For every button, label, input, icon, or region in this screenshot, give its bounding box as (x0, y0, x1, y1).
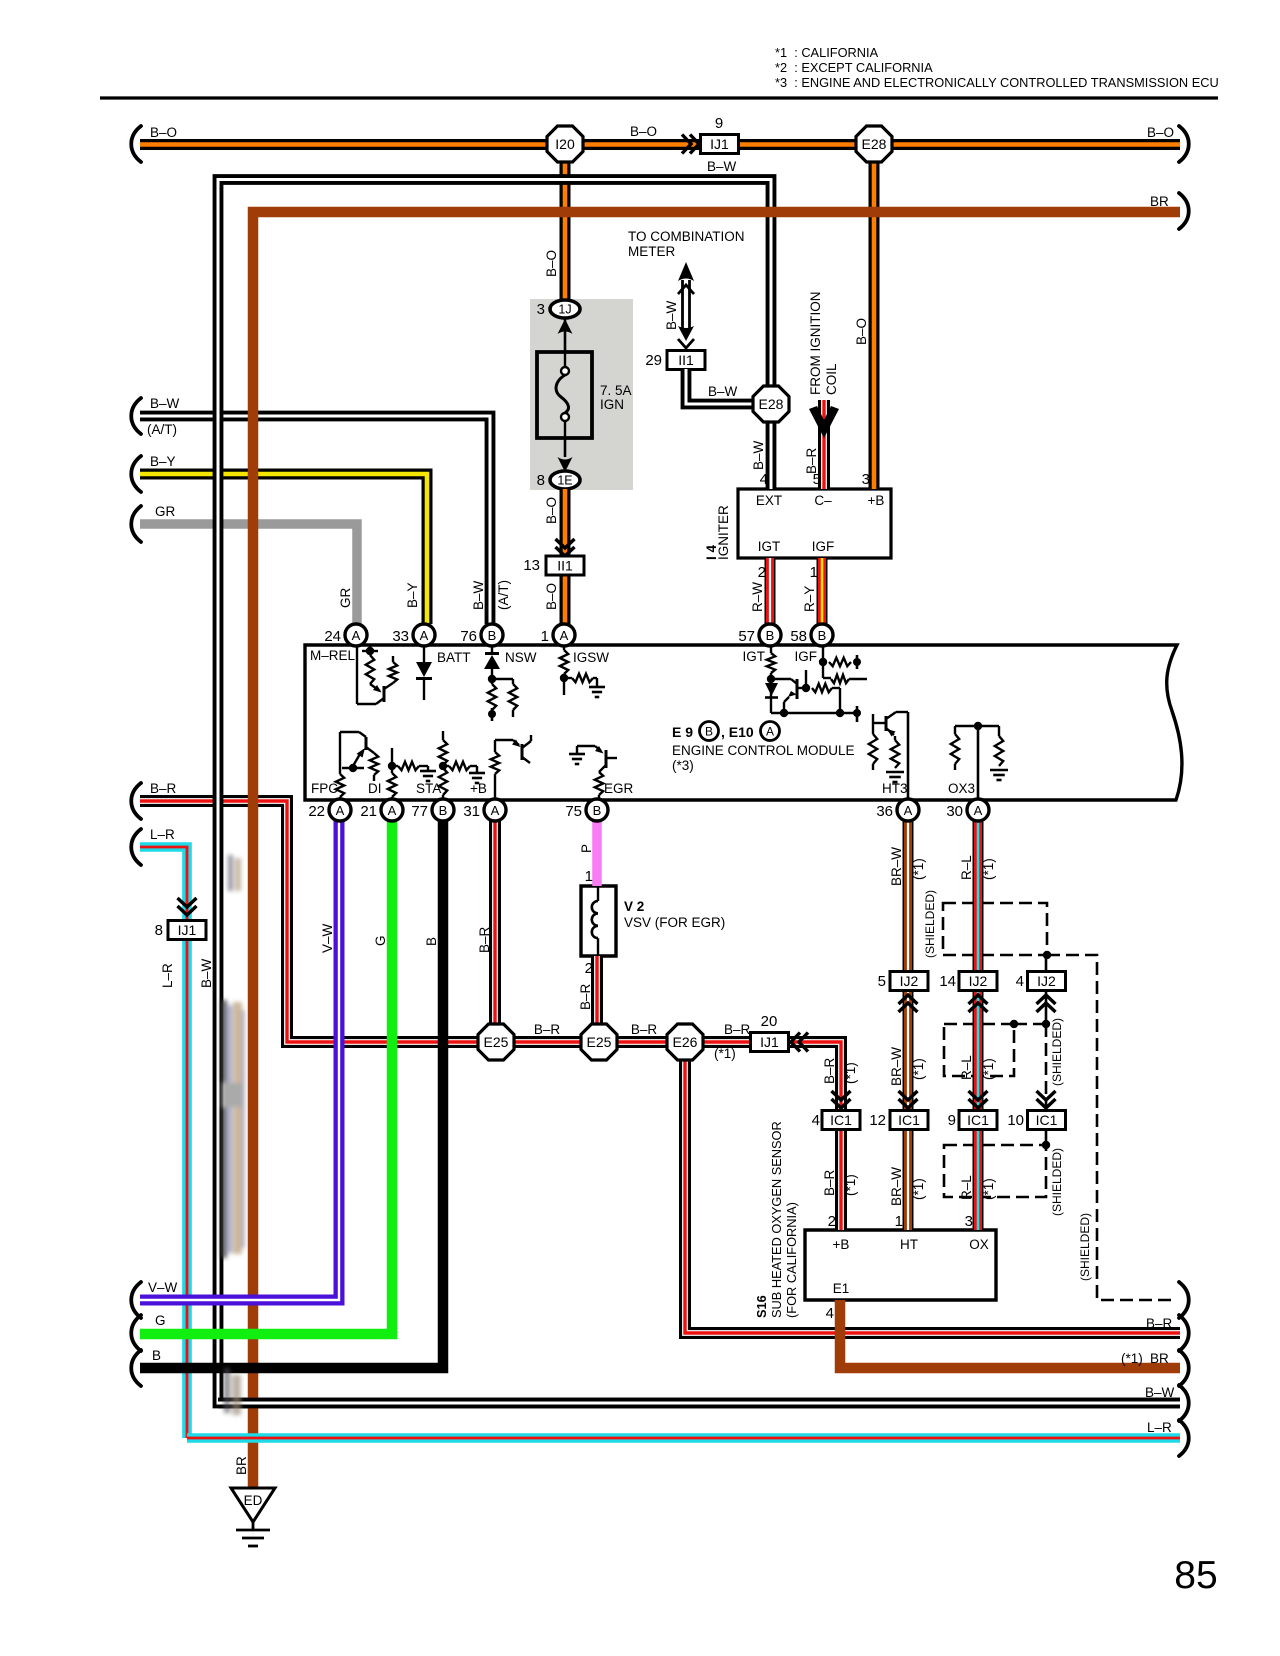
svg-text:B: B (152, 1348, 161, 1363)
svg-text:1: 1 (895, 1213, 903, 1230)
shield dashed col segment (1045, 1024, 1048, 1108)
chevrons up below IJ2-4 (1037, 995, 1056, 1012)
svg-text:IJ1: IJ1 (760, 1034, 779, 1050)
svg-text:(*1): (*1) (911, 1178, 926, 1200)
fuse panel (gray) (530, 299, 633, 490)
svg-text:HT: HT (900, 1237, 918, 1252)
transistor FPC circuit (336, 732, 378, 800)
wire R-W IGT (765, 558, 776, 624)
shield dot middle right (1042, 1020, 1050, 1028)
svg-text:*1 : CALIFORNIA: *1 : CALIFORNIA (775, 45, 879, 60)
svg-text:TO COMBINATION: TO COMBINATION (628, 229, 745, 244)
svg-text:L–R: L–R (150, 827, 175, 842)
svg-text:(FOR CALIFORNIA): (FOR CALIFORNIA) (784, 1202, 799, 1318)
svg-text:E26: E26 (673, 1034, 698, 1050)
svg-text:(*1): (*1) (714, 1046, 736, 1061)
scan smudge lower (224, 1368, 241, 1415)
wire BR main run (253, 212, 1180, 1490)
svg-text:(*1): (*1) (981, 1058, 996, 1080)
svg-text:BR–W: BR–W (889, 1167, 904, 1206)
ECM box outline (engine control module) (305, 645, 1182, 800)
wire L-R bottom segment (187, 1433, 1180, 1443)
svg-text:IC1: IC1 (830, 1112, 852, 1128)
svg-text:R–Y: R–Y (802, 586, 817, 612)
brace B-W right (1179, 1385, 1189, 1421)
svg-text:30: 30 (946, 803, 963, 820)
svg-text:8: 8 (537, 472, 545, 489)
svg-text:R–L: R–L (959, 855, 974, 880)
connector E26 (667, 1024, 703, 1060)
wire B-W (A/T) entry (140, 416, 490, 624)
svg-text:36: 36 (876, 803, 893, 820)
shield link middle (1014, 1023, 1046, 1026)
scan smudge upper (228, 855, 241, 891)
pin 57 (B) IGT (738, 624, 781, 646)
shield dot lower (1042, 1141, 1050, 1149)
svg-text:B–W: B–W (1145, 1385, 1175, 1400)
shield box upper (OX3) (943, 903, 1047, 955)
svg-text:G: G (155, 1313, 166, 1328)
wire R-L pin30 to IJ2 (973, 821, 984, 972)
svg-text:3: 3 (965, 1213, 973, 1230)
svg-text:B–O: B–O (544, 250, 559, 277)
svg-text:SUB HEATED OXYGEN SENSOR: SUB HEATED OXYGEN SENSOR (769, 1121, 784, 1318)
svg-text:B–W: B–W (150, 396, 180, 411)
shield dot middle left (1010, 1020, 1018, 1028)
svg-text:DI: DI (368, 781, 382, 796)
svg-text:5: 5 (813, 471, 821, 488)
svg-text:E1: E1 (833, 1281, 850, 1296)
ground ED triangle (231, 1488, 275, 1522)
svg-text:IGSW: IGSW (573, 650, 609, 665)
svg-text:(SHIELDED): (SHIELDED) (1050, 1018, 1064, 1086)
svg-text:S16: S16 (754, 1295, 769, 1318)
svg-text:IGT: IGT (743, 649, 766, 664)
svg-text:B–R: B–R (477, 926, 492, 953)
svg-text:2: 2 (585, 960, 593, 977)
svg-text:4: 4 (812, 1112, 820, 1129)
svg-text:1E: 1E (557, 474, 572, 488)
wire V-W entry (140, 821, 339, 1300)
svg-text:9: 9 (948, 1112, 956, 1129)
pin 30 (A) OX3 (946, 799, 989, 821)
diode BATT circuit (416, 645, 432, 700)
chevrons down above II1-13 (556, 539, 575, 556)
svg-text:B: B (766, 628, 775, 643)
wire B-R main path (140, 801, 841, 1230)
svg-text:IJ1: IJ1 (178, 922, 197, 938)
svg-text:3: 3 (537, 301, 545, 318)
fuse element (556, 352, 569, 438)
connector E28 (top) (856, 126, 892, 162)
svg-text:BR: BR (1150, 1351, 1169, 1366)
svg-text:B–R: B–R (822, 1057, 837, 1084)
svg-text:B–W: B–W (471, 580, 486, 610)
svg-text:(A/T): (A/T) (496, 580, 511, 610)
svg-text:58: 58 (790, 628, 807, 645)
svg-text:A: A (388, 803, 397, 818)
resistor IGSW circuit (560, 645, 605, 697)
pin 21 (A) DI (360, 799, 403, 821)
svg-text:R–L: R–L (959, 1175, 974, 1200)
svg-text:(SHIELDED): (SHIELDED) (923, 890, 937, 958)
svg-text:E25: E25 (484, 1034, 509, 1050)
svg-text:B–O: B–O (544, 583, 559, 610)
svg-text:2: 2 (758, 564, 766, 581)
svg-text:BR: BR (1150, 194, 1169, 209)
svg-text:A: A (420, 628, 429, 643)
svg-text:B–Y: B–Y (405, 582, 420, 608)
resistor DI circuit (388, 748, 436, 800)
svg-text:B–W: B–W (707, 159, 737, 174)
wire B entry (140, 821, 443, 1368)
svg-text:A: A (766, 725, 774, 739)
brace B-O left (131, 126, 141, 162)
chevrons down above IC1-10 (1037, 1091, 1056, 1108)
svg-text:A: A (560, 628, 569, 643)
brace B-R left (131, 783, 141, 819)
svg-text:B–R: B–R (534, 1022, 561, 1037)
junction IC1 (12) (890, 1111, 928, 1130)
connector 1E (550, 471, 580, 489)
junction IJ2 (4) (1028, 972, 1066, 991)
svg-text:E 9: E 9 (672, 724, 693, 740)
svg-text:A: A (491, 803, 500, 818)
junction IJ2 (5) (890, 972, 928, 991)
svg-text:STA: STA (416, 781, 441, 796)
transistor +B circuit (491, 735, 531, 800)
pin 75 (B) EGR (565, 799, 608, 821)
pin 1 (A) IGSW (541, 624, 575, 646)
svg-text:10: 10 (1007, 1112, 1024, 1129)
ground ED stem and bars (236, 1522, 270, 1546)
wire B-W II1 to E28 (686, 369, 753, 404)
wire L-R entry and vertical (140, 847, 187, 1438)
junction IC1 (9) (959, 1111, 997, 1130)
fuse wire lower (564, 438, 567, 457)
svg-text:B–O: B–O (544, 497, 559, 524)
wire B-W bottom segment (218, 1398, 1180, 1409)
junction II1 (13) (546, 556, 584, 575)
connector E25 (right) (581, 1024, 617, 1060)
svg-text:II1: II1 (557, 558, 573, 574)
shield box middle (R-L) (944, 1024, 1014, 1076)
chevrons right to IJ1-9 (682, 135, 699, 154)
wire R-L IC1 to sensor OX (973, 1128, 984, 1230)
junction IJ2 (14) (959, 972, 997, 991)
svg-text:B–R: B–R (822, 1169, 837, 1196)
wire GR entry (140, 524, 357, 624)
wire B-O fuse column upper (560, 161, 571, 300)
connector E28 (lower) (753, 386, 789, 422)
svg-text:5: 5 (878, 973, 886, 990)
svg-text:IGT: IGT (758, 539, 781, 554)
brace B-R right bottom (1179, 1315, 1189, 1351)
svg-text:(SHIELDED): (SHIELDED) (1078, 1213, 1092, 1281)
svg-text:V 2: V 2 (624, 899, 644, 914)
svg-text:(*1): (*1) (911, 858, 926, 880)
svg-text:B–R: B–R (1146, 1316, 1173, 1331)
igniter box I4 (738, 489, 891, 558)
fuse 7.5A IGN box (537, 352, 592, 438)
pin 31 (A) +B (463, 799, 506, 821)
wire B-R E26 branch to right exit (685, 1060, 1180, 1333)
transistor IGT circuit (765, 645, 861, 722)
diode NSW circuit (484, 645, 517, 721)
svg-text:B: B (818, 628, 827, 643)
wire B-W E28 to igniter EXT (766, 404, 777, 489)
svg-text:B–O: B–O (150, 125, 177, 140)
pin 33 (A) BATT (392, 624, 435, 646)
chevrons down above IC1-12 (899, 1091, 918, 1108)
brace B-W A/T left (131, 398, 141, 434)
svg-text:(*1): (*1) (1121, 1351, 1143, 1366)
svg-text:ENGINE CONTROL MODULE: ENGINE CONTROL MODULE (672, 743, 855, 758)
svg-text:(*1): (*1) (911, 1058, 926, 1080)
svg-text:ED: ED (244, 1493, 263, 1508)
svg-text:IC1: IC1 (967, 1112, 989, 1128)
svg-text:V–W: V–W (320, 923, 335, 953)
svg-text:85: 85 (1174, 1554, 1217, 1597)
svg-text:IJ2: IJ2 (969, 973, 988, 989)
svg-text:BR–W: BR–W (889, 1047, 904, 1086)
svg-text:22: 22 (308, 803, 325, 820)
wire R-Y IGF (817, 558, 828, 624)
svg-text:COIL: COIL (824, 363, 839, 395)
svg-text:13: 13 (523, 557, 540, 574)
wire B-O below 1E (560, 489, 571, 624)
brace V-W left (131, 1282, 141, 1318)
svg-text:IGN: IGN (600, 397, 624, 412)
svg-text:E28: E28 (759, 396, 784, 412)
pin 58 (B) IGF (790, 624, 833, 646)
pin 36 (A) HT3 (876, 799, 919, 821)
svg-text:IC1: IC1 (1036, 1112, 1058, 1128)
svg-text:BR–W: BR–W (889, 847, 904, 886)
svg-text:33: 33 (392, 628, 409, 645)
svg-text:A: A (904, 803, 913, 818)
svg-text:(*1): (*1) (981, 1178, 996, 1200)
svg-text:B: B (424, 937, 439, 946)
arrow into 1J (558, 319, 573, 334)
svg-text:+B: +B (470, 781, 487, 796)
svg-text:VSV (FOR EGR): VSV (FOR EGR) (624, 915, 725, 930)
svg-text:A: A (336, 803, 345, 818)
wire P pin75 to VSV (592, 821, 602, 886)
svg-text:12: 12 (869, 1112, 886, 1129)
svg-text:(*3): (*3) (672, 758, 694, 773)
svg-text:EXT: EXT (756, 493, 782, 508)
svg-text:(SHIELDED): (SHIELDED) (1050, 1148, 1064, 1216)
svg-text:IJ2: IJ2 (1037, 973, 1056, 989)
transistor EGR circuit (569, 746, 617, 800)
connector I20 (547, 126, 583, 162)
transistor HT3 circuit (869, 712, 908, 799)
svg-text:B–R: B–R (150, 781, 177, 796)
svg-text:GR: GR (155, 504, 176, 519)
junction IJ1 (20) (751, 1033, 789, 1052)
svg-text:2: 2 (828, 1213, 836, 1230)
resistor STA circuit (439, 731, 485, 800)
brace B-O right (1179, 126, 1189, 162)
junction IC1 (4) (822, 1111, 860, 1130)
svg-text:NSW: NSW (505, 650, 537, 665)
svg-text:G: G (373, 935, 388, 946)
svg-text:*3 : ENGINE AND ELECTRONICALL: *3 : ENGINE AND ELECTRONICALLY CONTROLLE… (775, 75, 1219, 90)
svg-text:E25: E25 (587, 1034, 612, 1050)
wire B-O E28 to igniter +B (869, 161, 880, 489)
svg-text:21: 21 (360, 803, 377, 820)
wire B-Y entry (140, 474, 427, 624)
svg-text:IGNITER: IGNITER (716, 505, 731, 560)
svg-text:31: 31 (463, 803, 480, 820)
VSV box V2 (581, 886, 616, 956)
svg-text:14: 14 (939, 973, 956, 990)
svg-text:+B: +B (868, 493, 885, 508)
wire B-R pin31 to E25 (489, 821, 501, 1024)
VSV coil (592, 886, 598, 956)
svg-text:1: 1 (585, 868, 593, 885)
relay M-REL circuit (357, 645, 397, 704)
svg-text:IGF: IGF (795, 649, 818, 664)
svg-text:A: A (352, 628, 361, 643)
svg-text:B–W: B–W (751, 440, 766, 470)
brace GR left (131, 506, 141, 542)
shield box lower (R-L) (944, 1145, 1046, 1197)
junction II1 (29) (667, 351, 705, 370)
svg-text:IJ2: IJ2 (900, 973, 919, 989)
shield col solid below IJ2-4 (1045, 990, 1048, 1024)
junction IJ1 (9) (701, 135, 739, 154)
node E9 (B) (672, 722, 780, 741)
svg-text:, E10: , E10 (721, 724, 754, 740)
arrow on ignition coil wire (809, 406, 839, 438)
svg-text:(*1): (*1) (843, 1062, 858, 1084)
brace G left (131, 1315, 141, 1351)
svg-text:E28: E28 (862, 136, 887, 152)
connector 1J (550, 300, 580, 318)
brace BR right (1179, 193, 1189, 229)
shield link to outer (1047, 955, 1177, 1300)
svg-text:B–W: B–W (664, 300, 679, 330)
svg-text:1: 1 (810, 564, 818, 581)
wire B-R from ignition coil (818, 400, 830, 489)
svg-text:8: 8 (155, 922, 163, 939)
svg-text:L–R: L–R (160, 963, 175, 988)
wire BR-W pin36 to IJ2 (903, 821, 914, 972)
svg-text:METER: METER (628, 244, 676, 259)
chevrons left after IJ1-20 (791, 1033, 808, 1052)
svg-text:20: 20 (761, 1013, 778, 1030)
svg-text:B–O: B–O (1147, 125, 1174, 140)
svg-text:M–REL: M–REL (310, 648, 356, 663)
svg-text:R–L: R–L (959, 1055, 974, 1080)
brace BR right bottom (1179, 1350, 1189, 1386)
svg-text:(*1): (*1) (981, 858, 996, 880)
svg-text:C–: C– (814, 493, 832, 508)
sensor box S16 outline (805, 1230, 996, 1300)
arrow into 1E (558, 457, 573, 472)
svg-text:II1: II1 (678, 352, 694, 368)
svg-text:4: 4 (1016, 973, 1024, 990)
brace B left (131, 1350, 141, 1386)
chevrons down above IC1-4 (832, 1091, 851, 1108)
svg-text:B: B (488, 628, 497, 643)
svg-text:(A/T): (A/T) (147, 422, 177, 437)
wire BR-W IJ2 to IC1 (903, 990, 914, 1112)
wire B-O main horizontal (140, 139, 1180, 150)
svg-text:BR: BR (234, 1456, 249, 1475)
svg-text:1: 1 (541, 628, 549, 645)
shield col solid below IC1-10 (1045, 1128, 1048, 1145)
wire R-L IJ2 to IC1 (973, 990, 984, 1112)
svg-text:+B: +B (833, 1237, 850, 1252)
svg-text:HT3: HT3 (882, 781, 908, 796)
svg-text:BATT: BATT (437, 650, 471, 665)
svg-text:OX: OX (969, 1237, 989, 1252)
svg-text:GR: GR (338, 587, 353, 608)
arrow to combination meter (678, 262, 694, 348)
svg-text:FROM IGNITION: FROM IGNITION (808, 292, 823, 396)
svg-text:57: 57 (738, 628, 755, 645)
wire BR sensor E1 to right exit (840, 1300, 1180, 1368)
svg-text:IC1: IC1 (898, 1112, 920, 1128)
svg-text:P: P (579, 844, 594, 853)
svg-text:B–O: B–O (854, 318, 869, 345)
svg-text:IGF: IGF (812, 539, 835, 554)
scan smudge main (221, 1000, 245, 1258)
chevrons up below IJ2-5 (899, 995, 918, 1012)
pin 77 (B) STA (411, 799, 454, 821)
wire BR-W IC1 to sensor HT (903, 1128, 914, 1230)
svg-text:29: 29 (645, 352, 662, 369)
svg-text:B–R: B–R (578, 983, 593, 1010)
svg-text:L–R: L–R (1147, 1420, 1172, 1435)
svg-text:B–O: B–O (630, 124, 657, 139)
svg-text:B–R: B–R (724, 1022, 751, 1037)
svg-text:*2 : EXCEPT CALIFORNIA: *2 : EXCEPT CALIFORNIA (775, 60, 933, 75)
header rule (100, 96, 1218, 99)
svg-text:1J: 1J (558, 303, 571, 317)
svg-text:A: A (974, 803, 983, 818)
svg-text:(*1): (*1) (843, 1174, 858, 1196)
svg-text:B–R: B–R (631, 1022, 658, 1037)
fuse wire upper (564, 318, 567, 352)
svg-text:OX3: OX3 (948, 781, 975, 796)
svg-text:B–Y: B–Y (150, 454, 176, 469)
svg-text:R–W: R–W (750, 582, 765, 612)
svg-text:B: B (705, 725, 713, 739)
shield junction dot upper (1043, 951, 1051, 959)
brace B-Y left (131, 456, 141, 492)
svg-text:76: 76 (460, 628, 477, 645)
svg-text:4: 4 (826, 1305, 834, 1322)
wire B-R VSV to E25 (591, 956, 603, 1024)
pin 24 (A) M-REL (324, 624, 367, 646)
svg-text:B: B (439, 803, 448, 818)
svg-text:B–W: B–W (199, 958, 214, 988)
junction IJ1 (8) (168, 921, 206, 940)
wire B-W main run (218, 180, 1180, 1404)
svg-text:77: 77 (411, 803, 428, 820)
connector E25 (left) (478, 1024, 514, 1060)
svg-text:V–W: V–W (148, 1280, 178, 1295)
svg-text:IJ1: IJ1 (710, 136, 729, 152)
chevrons up below IJ2-14 (969, 995, 988, 1012)
svg-text:4: 4 (760, 471, 768, 488)
wire G entry (140, 821, 392, 1334)
svg-text:FPC: FPC (311, 781, 338, 796)
